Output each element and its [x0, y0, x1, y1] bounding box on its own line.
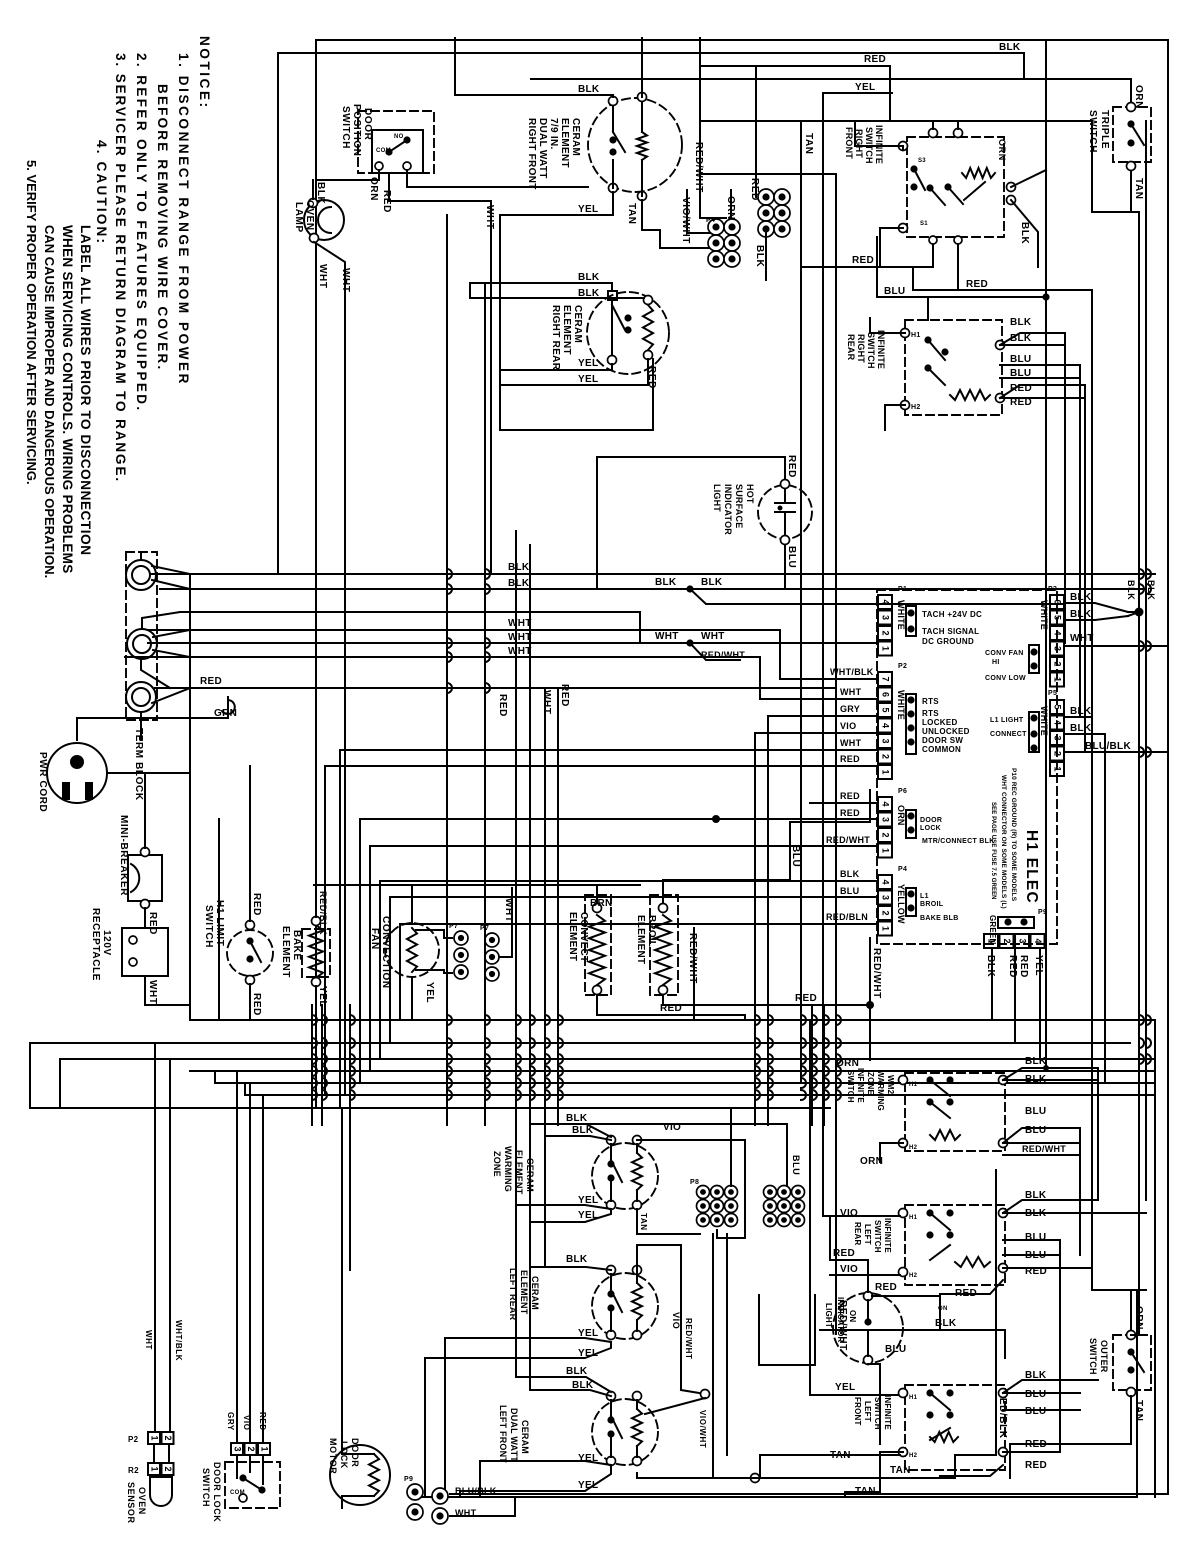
svg-text:BLK: BLK	[1025, 1074, 1047, 1085]
svg-text:4: 4	[881, 599, 891, 604]
svg-text:RED: RED	[258, 1412, 267, 1431]
svg-text:YEL: YEL	[855, 82, 875, 93]
svg-text:RED/BLN: RED/BLN	[826, 912, 868, 922]
svg-text:CONVECTION: CONVECTION	[380, 916, 391, 989]
svg-text:WM2: WM2	[886, 1075, 895, 1095]
svg-text:BLU: BLU	[1025, 1406, 1046, 1417]
svg-text:L1 LIGHT: L1 LIGHT	[990, 717, 1024, 724]
svg-text:H2: H2	[909, 1273, 918, 1279]
svg-text:BRN: BRN	[590, 898, 613, 909]
svg-text:YEL: YEL	[578, 204, 598, 215]
svg-text:TAN: TAN	[639, 1213, 648, 1231]
svg-text:BLK: BLK	[1070, 609, 1092, 620]
svg-text:P2: P2	[128, 1435, 139, 1444]
svg-text:WHT: WHT	[840, 738, 862, 748]
svg-text:RED: RED	[251, 993, 262, 1016]
svg-text:RED: RED	[795, 993, 817, 1004]
svg-text:RED/WHT: RED/WHT	[693, 142, 704, 193]
svg-text:RTS: RTS	[922, 709, 939, 718]
svg-text:HI: HI	[992, 659, 1000, 666]
svg-text:LIGHT: LIGHT	[824, 1303, 833, 1328]
svg-text:YEL: YEL	[1033, 955, 1044, 976]
svg-text:CERAM: CERAM	[572, 305, 583, 343]
svg-text:SWITCH: SWITCH	[873, 1220, 882, 1253]
svg-text:SWITCH: SWITCH	[201, 1468, 211, 1507]
svg-text:BLK: BLK	[1070, 706, 1092, 717]
svg-text:7/9 IN.: 7/9 IN.	[548, 118, 559, 150]
svg-text:LOCK: LOCK	[920, 825, 941, 832]
svg-text:RED/WHT: RED/WHT	[826, 835, 870, 845]
svg-text:3: 3	[1053, 646, 1063, 651]
svg-text:TAN: TAN	[1133, 1400, 1144, 1422]
svg-text:VIO: VIO	[242, 1415, 251, 1431]
svg-text:PWR CORD: PWR CORD	[37, 752, 48, 812]
svg-text:WHT: WHT	[144, 1330, 153, 1350]
svg-text:GRY: GRY	[840, 704, 860, 714]
svg-text:RED: RED	[875, 1282, 897, 1293]
svg-text:WHT: WHT	[840, 687, 862, 697]
svg-text:WHT: WHT	[655, 631, 679, 642]
svg-text:RED: RED	[840, 791, 860, 801]
svg-text:WHT: WHT	[1070, 633, 1094, 644]
svg-text:4: 4	[1053, 630, 1063, 635]
svg-text:BLK: BLK	[1025, 1208, 1047, 1219]
svg-text:1: 1	[881, 848, 891, 853]
svg-text:ORN: ORN	[1133, 1306, 1144, 1330]
svg-text:2: 2	[1053, 751, 1063, 756]
svg-text:VIO/WHT: VIO/WHT	[680, 197, 691, 244]
svg-text:BLU: BLU	[1025, 1250, 1046, 1261]
svg-text:TAN: TAN	[626, 203, 637, 225]
svg-text:TAN: TAN	[890, 1465, 911, 1476]
svg-text:WHITE: WHITE	[1039, 706, 1049, 736]
svg-text:BROIL: BROIL	[920, 901, 944, 908]
svg-text:LIGHT: LIGHT	[712, 484, 722, 512]
svg-text:RED: RED	[852, 255, 874, 266]
svg-text:VIO: VIO	[840, 1264, 858, 1275]
svg-text:RIGHT FRONT: RIGHT FRONT	[526, 118, 537, 190]
svg-text:INFINITE: INFINITE	[876, 330, 886, 369]
svg-text:BLK: BLK	[1019, 222, 1030, 245]
svg-text:CONVECT: CONVECT	[578, 912, 589, 962]
svg-text:P9: P9	[1038, 909, 1047, 916]
svg-text:ON: ON	[938, 1306, 948, 1312]
svg-text:RED: RED	[833, 1248, 855, 1259]
svg-text:WHT: WHT	[508, 632, 532, 643]
svg-text:5. VERIFY PROPER OPERATION AF: 5. VERIFY PROPER OPERATION AFTER SERVICI…	[24, 160, 39, 485]
svg-text:2: 2	[881, 832, 891, 837]
svg-text:BLK: BLK	[935, 1318, 957, 1329]
svg-text:POSITION: POSITION	[351, 104, 362, 157]
svg-text:DC GROUND: DC GROUND	[922, 637, 974, 646]
svg-text:ELEMENT: ELEMENT	[635, 915, 646, 964]
svg-text:BLK: BLK	[701, 577, 723, 588]
svg-text:RED/BLK: RED/BLK	[318, 891, 328, 935]
svg-text:P6: P6	[898, 788, 907, 795]
svg-text:BLK: BLK	[1010, 317, 1032, 328]
svg-text:REAR: REAR	[846, 334, 856, 361]
svg-text:BLU: BLU	[1025, 1389, 1046, 1400]
svg-text:RED: RED	[1025, 1460, 1047, 1471]
svg-text:INDICATOR: INDICATOR	[836, 1297, 845, 1343]
svg-text:RED: RED	[559, 684, 570, 707]
svg-text:H1: H1	[909, 1082, 918, 1088]
svg-text:OVEN: OVEN	[304, 200, 315, 231]
svg-text:WHEN SERVICING CONTROLS. WIRIN: WHEN SERVICING CONTROLS. WIRING PROBLEMS	[60, 225, 75, 574]
svg-text:RED: RED	[864, 54, 886, 65]
svg-text:L1: L1	[920, 893, 929, 900]
svg-text:FRONT: FRONT	[844, 127, 854, 159]
svg-text:FRONT: FRONT	[853, 1397, 862, 1426]
svg-text:5: 5	[1053, 615, 1063, 620]
svg-text:HOT: HOT	[745, 484, 755, 504]
svg-text:TAN: TAN	[1133, 178, 1144, 200]
svg-text:BLK: BLK	[985, 955, 996, 978]
svg-text:1: 1	[150, 1435, 160, 1440]
svg-text:P8: P8	[690, 1179, 699, 1186]
svg-text:ZONE: ZONE	[492, 1151, 502, 1177]
svg-text:RED: RED	[840, 754, 860, 764]
svg-text:ELEMENT: ELEMENT	[567, 912, 578, 961]
svg-text:S3: S3	[918, 158, 926, 164]
svg-text:H1 ELEC: H1 ELEC	[1023, 830, 1040, 904]
svg-text:2: 2	[163, 1435, 173, 1440]
svg-text:INFINITE: INFINITE	[883, 1218, 892, 1253]
svg-text:2. REFER ONLY TO FEATURES EQUI: 2. REFER ONLY TO FEATURES EQUIPPED.	[134, 53, 149, 413]
svg-text:RED: RED	[497, 694, 508, 717]
svg-text:RED: RED	[200, 676, 222, 687]
svg-text:RIGHT: RIGHT	[856, 334, 866, 363]
svg-text:H2: H2	[909, 1145, 918, 1151]
svg-text:LOCK: LOCK	[339, 1441, 349, 1469]
svg-text:RED: RED	[1025, 1266, 1047, 1277]
svg-text:H1: H1	[911, 332, 921, 339]
svg-text:4: 4	[881, 723, 891, 728]
svg-text:BLK: BLK	[999, 42, 1021, 53]
svg-text:RED: RED	[646, 366, 657, 389]
svg-text:4: 4	[1033, 938, 1043, 943]
svg-text:ELEMENT: ELEMENT	[559, 118, 570, 168]
svg-text:3: 3	[881, 738, 891, 743]
svg-text:RED/WHT: RED/WHT	[684, 1318, 693, 1360]
svg-text:NOTICE:: NOTICE:	[197, 36, 212, 110]
svg-text:P1: P1	[898, 586, 907, 593]
svg-text:2: 2	[163, 1466, 173, 1471]
svg-text:BROIL: BROIL	[646, 915, 657, 947]
svg-text:P2: P2	[898, 663, 907, 670]
svg-text:6: 6	[881, 692, 891, 697]
svg-text:BLU: BLU	[1025, 1106, 1046, 1117]
svg-text:LAMP: LAMP	[293, 202, 304, 233]
svg-text:WHT: WHT	[147, 980, 158, 1005]
svg-text:RIGHT REAR: RIGHT REAR	[550, 305, 561, 371]
svg-text:TERM BLOCK: TERM BLOCK	[133, 728, 144, 801]
svg-text:1: 1	[881, 926, 891, 931]
svg-text:BLU: BLU	[1025, 1232, 1046, 1243]
svg-text:BLK: BLK	[508, 578, 530, 589]
svg-text:BLU: BLU	[791, 1155, 801, 1175]
svg-text:1. DISCONNECT RANGE FROM POWER: 1. DISCONNECT RANGE FROM POWER	[176, 53, 191, 386]
svg-text:WHT: WHT	[508, 618, 532, 629]
svg-text:3. SERVICER PLEASE RETURN DIAG: 3. SERVICER PLEASE RETURN DIAGRAM TO RAN…	[113, 53, 128, 483]
svg-text:YEL: YEL	[578, 358, 598, 369]
svg-text:UNLOCKED: UNLOCKED	[922, 727, 970, 736]
svg-text:CONV FAN: CONV FAN	[985, 650, 1024, 657]
svg-text:BLK: BLK	[508, 562, 530, 573]
svg-text:WHT/BLK: WHT/BLK	[830, 667, 874, 677]
svg-text:COM: COM	[230, 1490, 245, 1496]
svg-text:2: 2	[1053, 661, 1063, 666]
svg-text:3: 3	[881, 895, 891, 900]
svg-text:BLU: BLU	[786, 546, 797, 568]
svg-text:VIO: VIO	[840, 721, 856, 731]
svg-text:ELEMENT: ELEMENT	[561, 305, 572, 355]
svg-text:4. CAUTION:: 4. CAUTION:	[94, 140, 109, 245]
svg-text:DOOR: DOOR	[920, 817, 942, 824]
svg-text:YEL: YEL	[578, 374, 598, 385]
svg-text:P10 REC GROUND (R) TO SOME MOD: P10 REC GROUND (R) TO SOME MODELS	[1010, 768, 1017, 902]
svg-text:BLK: BLK	[1025, 1190, 1047, 1201]
svg-text:COMMON: COMMON	[922, 745, 961, 754]
svg-text:RED/WHT: RED/WHT	[687, 933, 698, 984]
svg-text:NO: NO	[394, 134, 404, 140]
svg-text:RED/WHT: RED/WHT	[701, 650, 745, 660]
svg-text:BLK: BLK	[754, 245, 765, 268]
svg-text:BLU: BLU	[1010, 354, 1031, 365]
svg-text:ORN: ORN	[997, 139, 1007, 161]
svg-text:P5: P5	[1048, 690, 1057, 697]
svg-text:WARMING: WARMING	[503, 1146, 513, 1192]
svg-text:WHT CONNECTOR ON SOME MODELS (: WHT CONNECTOR ON SOME MODELS (L)	[1000, 775, 1007, 909]
svg-text:INFINITE: INFINITE	[856, 1068, 865, 1103]
svg-text:ORN: ORN	[836, 1058, 859, 1069]
svg-text:SWITCH: SWITCH	[873, 1397, 882, 1430]
svg-text:RED: RED	[1007, 955, 1018, 978]
svg-text:YELLOW: YELLOW	[896, 884, 906, 924]
svg-text:H2: H2	[909, 1453, 918, 1459]
svg-text:BAKE BLB: BAKE BLB	[920, 915, 959, 922]
svg-text:BLU: BLU	[884, 286, 905, 297]
svg-text:OUTER: OUTER	[1099, 1340, 1109, 1373]
svg-text:BLK: BLK	[578, 272, 600, 283]
svg-text:DOOR LOCK: DOOR LOCK	[212, 1462, 222, 1522]
svg-text:6: 6	[1053, 599, 1063, 604]
svg-text:SWITCH: SWITCH	[1087, 110, 1098, 153]
svg-text:3: 3	[233, 1446, 243, 1451]
svg-text:TACH SIGNAL: TACH SIGNAL	[922, 627, 979, 636]
svg-text:VIO: VIO	[840, 1208, 858, 1219]
svg-text:LEFT FRONT: LEFT FRONT	[498, 1405, 508, 1463]
svg-text:SURFACE: SURFACE	[734, 484, 744, 528]
svg-text:OVEN: OVEN	[137, 1487, 147, 1515]
svg-text:ELEMENT: ELEMENT	[519, 1270, 529, 1315]
svg-text:BLK: BLK	[1025, 1056, 1047, 1067]
svg-text:RTS: RTS	[922, 697, 939, 706]
svg-text:TAN: TAN	[803, 133, 814, 155]
svg-text:BLK: BLK	[566, 1254, 588, 1265]
svg-text:BLK: BLK	[566, 1113, 588, 1124]
svg-text:BAKE: BAKE	[291, 930, 302, 961]
svg-text:BLK: BLK	[1126, 580, 1136, 600]
svg-text:SWITCH: SWITCH	[1088, 1338, 1098, 1375]
svg-text:VIO/WHT: VIO/WHT	[698, 1410, 707, 1448]
svg-text:RED: RED	[251, 893, 262, 916]
svg-text:INFINITE: INFINITE	[883, 1395, 892, 1430]
svg-text:1: 1	[1053, 766, 1063, 771]
svg-text:SWITCH: SWITCH	[340, 106, 351, 149]
svg-text:4: 4	[881, 801, 891, 806]
svg-text:DUAL WATT: DUAL WATT	[509, 1408, 519, 1462]
svg-text:WARMING: WARMING	[876, 1070, 885, 1111]
svg-text:H1: H1	[909, 1215, 918, 1221]
svg-text:R2: R2	[128, 1466, 139, 1475]
svg-text:DOOR SW: DOOR SW	[922, 736, 963, 745]
svg-text:GRY: GRY	[226, 1412, 235, 1431]
svg-text:DOOR: DOOR	[350, 1438, 360, 1467]
svg-text:BLK: BLK	[655, 577, 677, 588]
svg-text:MOTOR: MOTOR	[328, 1438, 338, 1474]
svg-text:1: 1	[260, 1446, 270, 1451]
svg-text:REAR: REAR	[853, 1222, 862, 1245]
svg-text:WHT: WHT	[541, 690, 552, 715]
svg-text:1: 1	[1053, 677, 1063, 682]
svg-text:WHITE: WHITE	[1039, 600, 1049, 630]
svg-text:P3: P3	[1048, 586, 1057, 593]
svg-text:3: 3	[881, 615, 891, 620]
svg-text:LABEL ALL WIRES PRIOR TO DISCO: LABEL ALL WIRES PRIOR TO DISCONNECTION	[78, 225, 93, 556]
svg-text:5: 5	[881, 707, 891, 712]
svg-text:CERAM: CERAM	[530, 1276, 540, 1310]
svg-text:BLU: BLU	[790, 845, 801, 867]
svg-text:P4: P4	[706, 217, 715, 224]
svg-text:WHITE: WHITE	[896, 690, 906, 720]
svg-text:LEFT: LEFT	[863, 1401, 872, 1422]
svg-text:CONV LOW: CONV LOW	[985, 675, 1026, 682]
svg-text:WHT: WHT	[317, 264, 328, 289]
svg-text:2: 2	[246, 1446, 256, 1451]
svg-text:COM: COM	[376, 148, 391, 154]
svg-text:LOCKED: LOCKED	[922, 718, 958, 727]
svg-text:2: 2	[881, 630, 891, 635]
svg-text:FAN: FAN	[369, 928, 380, 950]
svg-text:BLK: BLK	[1070, 723, 1092, 734]
svg-text:WHT: WHT	[508, 646, 532, 657]
svg-text:3: 3	[881, 817, 891, 822]
svg-text:LEFT: LEFT	[863, 1224, 872, 1245]
svg-text:BLK: BLK	[566, 1366, 588, 1377]
svg-text:BLK: BLK	[315, 182, 326, 205]
svg-text:3: 3	[1018, 938, 1028, 943]
svg-text:MINI-BREAKER: MINI-BREAKER	[118, 815, 129, 896]
svg-text:1: 1	[881, 646, 891, 651]
svg-text:RED: RED	[147, 912, 158, 935]
svg-text:3: 3	[1053, 735, 1063, 740]
svg-text:BLU: BLU	[1025, 1125, 1046, 1136]
svg-text:1: 1	[881, 769, 891, 774]
svg-text:4: 4	[1053, 720, 1063, 725]
svg-text:BLU: BLU	[885, 1344, 906, 1355]
svg-text:BLK: BLK	[1025, 1370, 1047, 1381]
svg-text:120V: 120V	[101, 930, 112, 956]
svg-text:BEFORE REMOVING WIRE COVER.: BEFORE REMOVING WIRE COVER.	[155, 84, 170, 371]
svg-text:ORN: ORN	[896, 805, 906, 826]
svg-text:BLK: BLK	[578, 84, 600, 95]
svg-text:SENSOR: SENSOR	[126, 1482, 136, 1524]
svg-text:VIO: VIO	[671, 1312, 681, 1329]
svg-text:BLK: BLK	[840, 869, 860, 879]
svg-text:WHT: WHT	[484, 205, 495, 230]
svg-text:CERAM: CERAM	[570, 118, 581, 156]
svg-text:1: 1	[150, 1466, 160, 1471]
svg-text:INFINITE: INFINITE	[874, 125, 884, 164]
svg-text:CERAM: CERAM	[520, 1420, 530, 1454]
svg-text:BLK: BLK	[1010, 333, 1032, 344]
svg-text:2: 2	[1002, 938, 1012, 943]
svg-text:S1: S1	[920, 221, 928, 227]
svg-text:BLU/BLK: BLU/BLK	[1085, 741, 1131, 752]
svg-text:H1: H1	[909, 1395, 918, 1401]
svg-text:7: 7	[881, 676, 891, 681]
svg-text:CAN CAUSE IMPROPER AND DANGERO: CAN CAUSE IMPROPER AND DANGEROUS OPERATI…	[42, 225, 57, 578]
svg-text:WHT: WHT	[701, 631, 725, 642]
svg-text:RED: RED	[786, 455, 797, 478]
svg-text:YEL: YEL	[424, 982, 435, 1003]
svg-text:ELEMENT: ELEMENT	[280, 926, 291, 978]
svg-text:WHT/BLK: WHT/BLK	[174, 1320, 183, 1361]
svg-text:RED/WHT: RED/WHT	[1022, 1144, 1066, 1154]
svg-text:BLK: BLK	[1070, 592, 1092, 603]
svg-text:SWITCH: SWITCH	[846, 1070, 855, 1103]
svg-text:WHITE: WHITE	[896, 600, 906, 630]
svg-text:MTR/CONNECT BLK: MTR/CONNECT BLK	[922, 838, 995, 845]
svg-text:INDICATOR: INDICATOR	[723, 484, 733, 535]
svg-text:TACH +24V DC: TACH +24V DC	[922, 610, 982, 619]
svg-text:RECEPTACLE: RECEPTACLE	[90, 908, 101, 981]
svg-text:YEL: YEL	[835, 1382, 855, 1393]
svg-text:P9: P9	[404, 1476, 413, 1483]
svg-text:SWITCH: SWITCH	[866, 332, 876, 369]
svg-text:DUAL WATT: DUAL WATT	[537, 118, 548, 179]
svg-text:RED: RED	[966, 279, 988, 290]
svg-text:CONNECT: CONNECT	[990, 731, 1027, 738]
svg-text:ON: ON	[848, 1310, 857, 1322]
svg-text:RED/WHT: RED/WHT	[871, 948, 882, 999]
svg-text:RED: RED	[840, 808, 860, 818]
svg-text:RED: RED	[1018, 955, 1029, 978]
svg-text:TRIPLE: TRIPLE	[1099, 110, 1110, 149]
svg-text:1: 1	[987, 938, 997, 943]
svg-text:5: 5	[1053, 704, 1063, 709]
svg-text:SWITCH: SWITCH	[203, 905, 214, 948]
svg-text:2: 2	[881, 910, 891, 915]
svg-text:4: 4	[881, 879, 891, 884]
svg-text:SEE PAGE USE FUSE 7.5 GREEN: SEE PAGE USE FUSE 7.5 GREEN	[990, 802, 996, 900]
svg-text:2: 2	[881, 754, 891, 759]
svg-text:P4: P4	[898, 866, 907, 873]
svg-text:ORN: ORN	[860, 1156, 883, 1167]
svg-text:BLU: BLU	[840, 886, 859, 896]
svg-text:H2: H2	[911, 404, 921, 411]
svg-text:P7: P7	[449, 923, 458, 930]
